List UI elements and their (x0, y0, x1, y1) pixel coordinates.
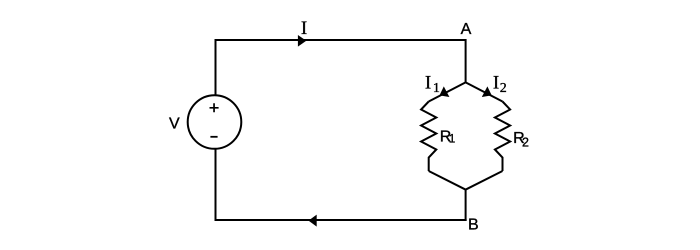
resistor R2 zigzag (495, 102, 510, 172)
current arrow I (pointing right) on top wire (298, 35, 306, 47)
svg-text:B: B (468, 217, 479, 234)
svg-text:2: 2 (500, 81, 507, 96)
svg-text:A: A (461, 21, 472, 38)
svg-text:I: I (493, 73, 499, 94)
current arrow I1 (pointing down-left on left diagonal) (440, 86, 450, 97)
svg-text:I: I (301, 18, 307, 39)
wire: left vertical, top wire down to source positive terminal (215, 39, 217, 95)
resistor R1 zigzag (421, 102, 436, 172)
wire: diagonal from R1 bottom to node B junction (429, 171, 466, 190)
wire: left vertical, source negative terminal down to bottom wire (215, 149, 217, 221)
node A junction (top of parallel branches) (465, 82, 467, 83)
svg-text:I: I (425, 73, 431, 94)
svg-text:1: 1 (449, 134, 455, 146)
voltage source plus terminal (210, 103, 219, 112)
svg-text:1: 1 (433, 81, 440, 96)
svg-text:V: V (169, 116, 180, 133)
voltage source minus terminal (210, 136, 217, 138)
voltage source V1 circle (188, 95, 242, 149)
wire: top horizontal from source to node A corner (215, 39, 467, 41)
wire: diagonal from top junction to resistor R2 top (465, 82, 503, 102)
node B junction (bottom of parallel branches) (465, 189, 467, 190)
svg-text:2: 2 (522, 136, 529, 150)
wire: vertical from node A corner down to parallel-branch junction (465, 39, 467, 83)
wire: stub from node B junction down to bottom wire (465, 189, 467, 221)
current arrow I2 (pointing down-right on right diagonal) (482, 86, 492, 97)
wire: diagonal from R2 bottom to node B junction (465, 171, 502, 190)
wire: bottom horizontal return to source (215, 219, 467, 221)
wire: diagonal from top junction to resistor R1 top (429, 82, 467, 102)
current arrow (pointing left) on bottom wire (309, 215, 317, 227)
